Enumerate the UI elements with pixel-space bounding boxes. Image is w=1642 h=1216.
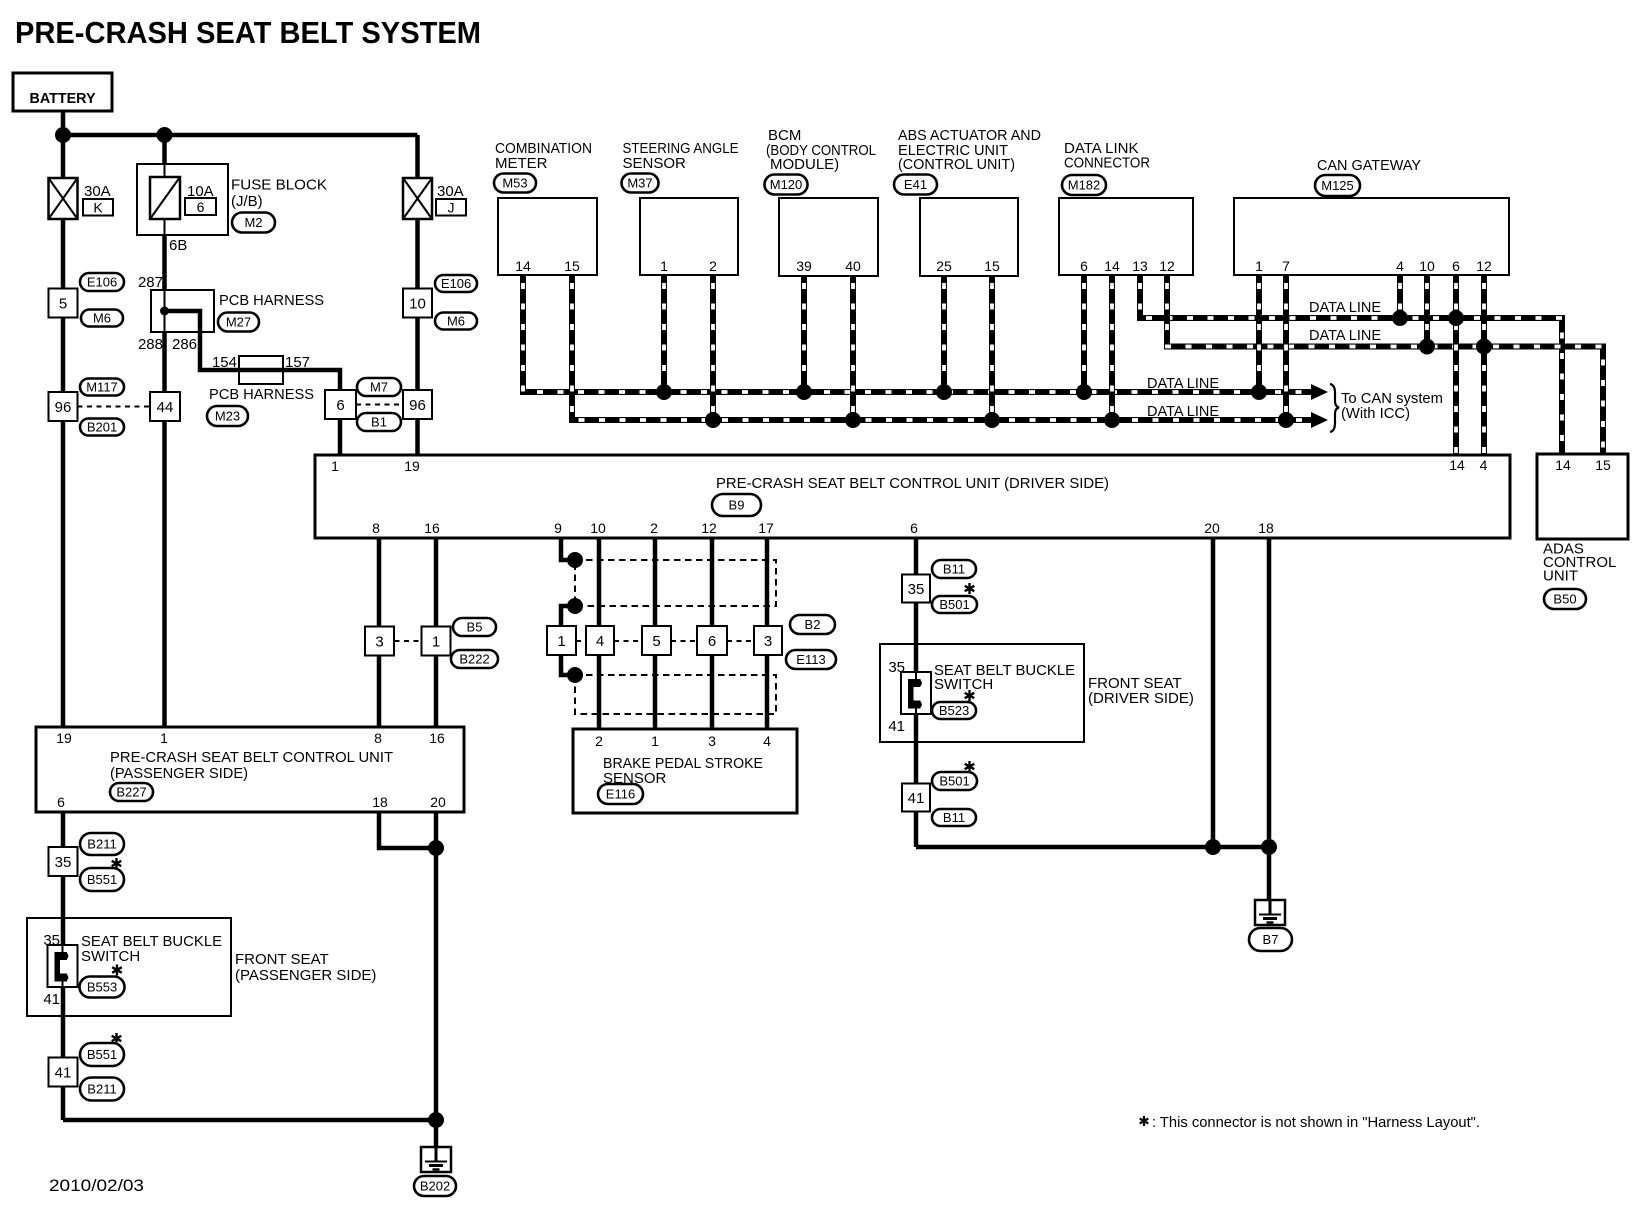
svg-text:(PASSENGER SIDE): (PASSENGER SIDE): [235, 967, 376, 984]
svg-text:6: 6: [197, 199, 205, 215]
svg-text:M120: M120: [770, 177, 803, 192]
svg-text:41: 41: [43, 991, 60, 1008]
svg-text:5: 5: [652, 633, 660, 650]
svg-text:(PASSENGER SIDE): (PASSENGER SIDE): [110, 765, 248, 782]
svg-text:B551: B551: [87, 1047, 117, 1062]
svg-text:41: 41: [908, 790, 925, 807]
svg-text:12: 12: [701, 520, 717, 536]
svg-text:FRONT SEAT: FRONT SEAT: [235, 951, 329, 968]
svg-text:B2: B2: [805, 617, 821, 632]
svg-text:SWITCH: SWITCH: [934, 676, 993, 693]
svg-text:9: 9: [554, 520, 562, 536]
svg-text:8: 8: [372, 520, 380, 536]
svg-text:M125: M125: [1321, 178, 1354, 193]
svg-text:7: 7: [1282, 258, 1290, 274]
svg-text:18: 18: [1258, 520, 1274, 536]
svg-text:286: 286: [172, 336, 197, 353]
svg-text:METER: METER: [495, 155, 548, 172]
svg-text:PRE-CRASH SEAT BELT CONTROL UN: PRE-CRASH SEAT BELT CONTROL UNIT: [110, 749, 393, 766]
svg-text:10: 10: [409, 295, 426, 312]
svg-text:3: 3: [764, 633, 772, 650]
svg-text:UNIT: UNIT: [1543, 568, 1578, 585]
svg-text:1: 1: [660, 258, 668, 274]
svg-text:5: 5: [59, 295, 67, 312]
svg-text:6B: 6B: [169, 237, 187, 254]
svg-text:4: 4: [1480, 457, 1488, 473]
svg-text:35: 35: [55, 854, 72, 871]
svg-text:M6: M6: [93, 311, 111, 326]
svg-text:30A: 30A: [84, 183, 111, 200]
svg-text:41: 41: [888, 718, 905, 735]
svg-text:14: 14: [1104, 258, 1120, 274]
svg-text:BATTERY: BATTERY: [30, 90, 96, 107]
svg-text:B11: B11: [943, 562, 965, 577]
svg-text:287: 287: [138, 274, 163, 291]
svg-text:18: 18: [372, 794, 388, 810]
svg-text:PRE-CRASH SEAT BELT CONTROL UN: PRE-CRASH SEAT BELT CONTROL UNIT (DRIVER…: [716, 475, 1109, 492]
svg-text:1: 1: [160, 730, 168, 746]
svg-text:25: 25: [936, 258, 952, 274]
svg-text:16: 16: [429, 730, 445, 746]
svg-text:157: 157: [285, 354, 310, 371]
svg-text:B1: B1: [371, 415, 387, 430]
svg-text:J: J: [448, 200, 455, 216]
svg-text:PCB HARNESS: PCB HARNESS: [219, 292, 324, 309]
svg-text:CONNECTOR: CONNECTOR: [1064, 155, 1150, 172]
svg-text:4: 4: [1396, 258, 1404, 274]
svg-text:B5: B5: [467, 620, 483, 635]
svg-text:2010/02/03: 2010/02/03: [49, 1176, 144, 1195]
svg-text:12: 12: [1476, 258, 1492, 274]
svg-text:E41: E41: [904, 177, 927, 192]
svg-text:SENSOR: SENSOR: [623, 155, 687, 172]
svg-text:B501: B501: [939, 597, 969, 612]
svg-text:B201: B201: [87, 420, 117, 435]
svg-text:(J/B): (J/B): [231, 193, 263, 210]
svg-text:3: 3: [708, 733, 716, 749]
svg-text:3: 3: [375, 633, 383, 650]
svg-text:DATA LINE: DATA LINE: [1147, 403, 1219, 420]
svg-text:41: 41: [55, 1064, 72, 1081]
svg-text:B211: B211: [87, 837, 116, 852]
svg-text:B227: B227: [116, 785, 146, 800]
svg-text:1: 1: [331, 458, 339, 474]
svg-text:M7: M7: [370, 380, 388, 395]
svg-text:: This connector is not shown: : This connector is not shown in "Harnes…: [1152, 1114, 1480, 1131]
svg-text:15: 15: [984, 258, 1000, 274]
svg-text:B202: B202: [420, 1179, 450, 1194]
svg-text:16: 16: [424, 520, 440, 536]
svg-text:1: 1: [651, 733, 659, 749]
svg-text:B501: B501: [939, 774, 969, 789]
svg-text:14: 14: [515, 258, 531, 274]
svg-text:MODULE): MODULE): [770, 156, 839, 173]
svg-text:B9: B9: [729, 498, 745, 513]
svg-text:19: 19: [56, 730, 72, 746]
svg-text:CAN GATEWAY: CAN GATEWAY: [1317, 157, 1421, 174]
svg-text:6: 6: [910, 520, 918, 536]
svg-text:DATA LINE: DATA LINE: [1309, 327, 1381, 344]
svg-text:(CONTROL UNIT): (CONTROL UNIT): [898, 156, 1015, 173]
svg-text:10: 10: [1419, 258, 1435, 274]
svg-text:E116: E116: [606, 787, 635, 802]
svg-text:M37: M37: [627, 176, 652, 191]
svg-text:20: 20: [1204, 520, 1220, 536]
svg-text:6: 6: [336, 397, 344, 414]
svg-text:10: 10: [590, 520, 606, 536]
svg-text:FUSE BLOCK: FUSE BLOCK: [231, 177, 327, 194]
svg-text:E113: E113: [796, 652, 825, 667]
svg-text:B222: B222: [459, 652, 489, 667]
svg-text:(With ICC): (With ICC): [1341, 405, 1410, 422]
svg-text:8: 8: [374, 730, 382, 746]
svg-text:15: 15: [564, 258, 580, 274]
svg-text:M6: M6: [447, 314, 465, 329]
svg-text:19: 19: [404, 458, 420, 474]
svg-text:B50: B50: [1553, 592, 1576, 607]
svg-text:15: 15: [1595, 457, 1611, 473]
svg-text:B11: B11: [943, 810, 965, 825]
svg-text:B551: B551: [87, 872, 117, 887]
svg-text:DATA LINE: DATA LINE: [1147, 375, 1219, 392]
svg-text:B553: B553: [87, 980, 117, 995]
svg-text:4: 4: [763, 733, 771, 749]
svg-text:2: 2: [595, 733, 603, 749]
svg-text:6: 6: [1080, 258, 1088, 274]
svg-text:E106: E106: [87, 275, 117, 290]
svg-text:17: 17: [758, 520, 774, 536]
svg-text:30A: 30A: [437, 183, 464, 200]
svg-text:B7: B7: [1263, 932, 1279, 947]
svg-text:39: 39: [796, 258, 812, 274]
svg-text:96: 96: [55, 399, 72, 416]
svg-text:2: 2: [709, 258, 717, 274]
svg-text:(DRIVER SIDE): (DRIVER SIDE): [1088, 690, 1194, 707]
svg-text:E106: E106: [441, 276, 471, 291]
svg-text:12: 12: [1159, 258, 1175, 274]
svg-text:13: 13: [1132, 258, 1148, 274]
svg-text:1: 1: [432, 633, 440, 650]
svg-text:PCB HARNESS: PCB HARNESS: [209, 386, 314, 403]
svg-text:154: 154: [212, 354, 237, 371]
svg-text:44: 44: [157, 399, 174, 416]
svg-text:B211: B211: [87, 1082, 116, 1097]
svg-text:M23: M23: [215, 409, 240, 424]
svg-text:35: 35: [908, 581, 925, 598]
svg-text:40: 40: [845, 258, 861, 274]
svg-text:6: 6: [1452, 258, 1460, 274]
svg-text:6: 6: [708, 633, 716, 650]
svg-text:288: 288: [138, 336, 163, 353]
svg-text:M117: M117: [86, 380, 118, 395]
svg-text:K: K: [93, 200, 103, 216]
svg-text:1: 1: [557, 633, 565, 650]
svg-text:M27: M27: [226, 315, 251, 330]
svg-text:14: 14: [1555, 457, 1571, 473]
svg-text:M182: M182: [1068, 178, 1101, 193]
svg-text:1: 1: [1255, 258, 1263, 274]
svg-text:20: 20: [430, 794, 446, 810]
svg-text:96: 96: [409, 397, 426, 414]
svg-text:2: 2: [650, 520, 658, 536]
svg-text:6: 6: [57, 794, 65, 810]
svg-text:14: 14: [1449, 457, 1465, 473]
svg-text:4: 4: [596, 633, 604, 650]
svg-text:B523: B523: [939, 703, 969, 718]
svg-text:M53: M53: [502, 176, 527, 191]
svg-text:M2: M2: [244, 215, 262, 230]
svg-text:PRE-CRASH SEAT BELT SYSTEM: PRE-CRASH SEAT BELT SYSTEM: [15, 15, 481, 50]
svg-text:DATA LINE: DATA LINE: [1309, 299, 1381, 316]
svg-text:SWITCH: SWITCH: [81, 948, 140, 965]
